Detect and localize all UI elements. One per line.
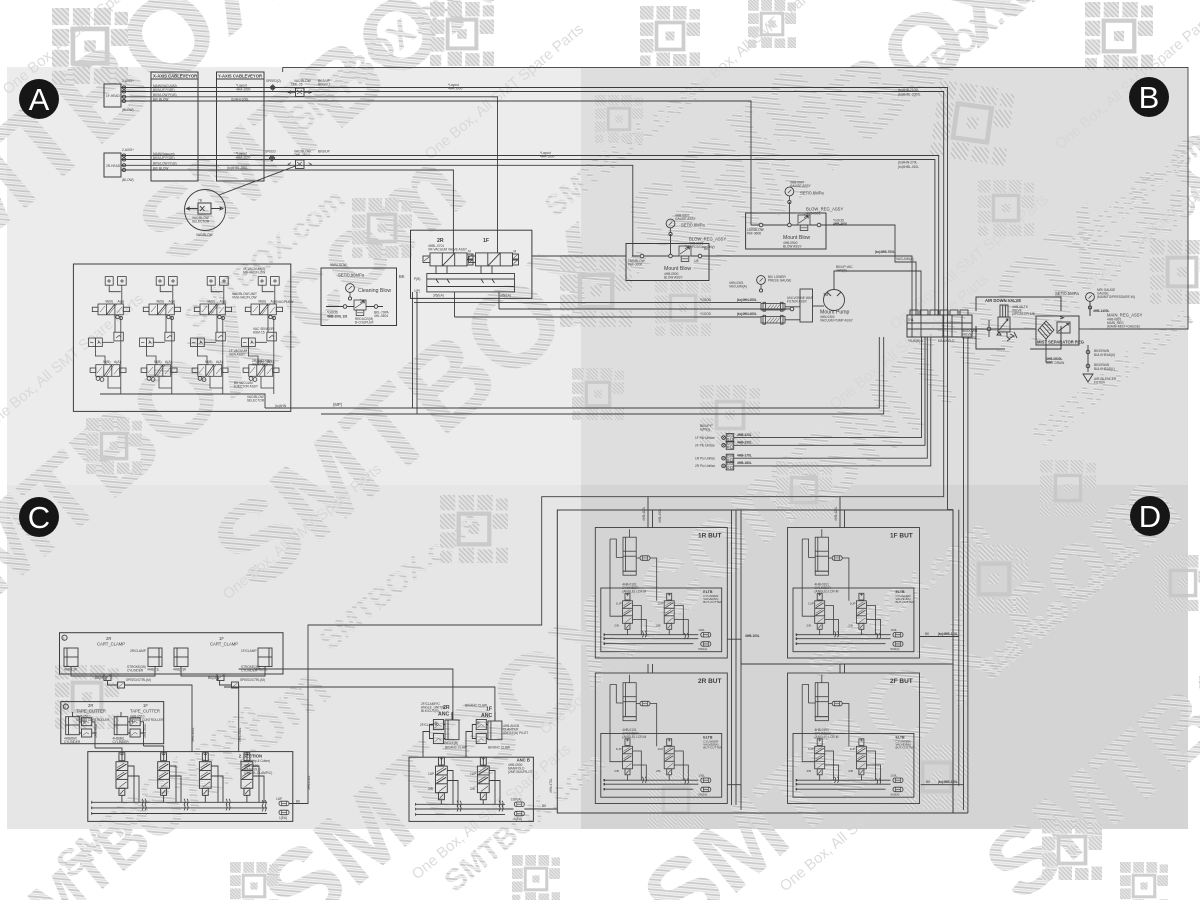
svg-text:TAPE_CUTTER: TAPE_CUTTER [130,709,160,714]
supply line top [283,67,1188,329]
svg-text:SPEED: SPEED [265,150,277,154]
svg-text:4HA-1000: 4HA-1000 [236,156,251,160]
svg-text:OML-25: OML-25 [291,83,303,87]
svg-text:2F Plu Unitize: 2F Plu Unitize [695,444,715,448]
svg-text:BLOW ASSY: BLOW ASSY [783,245,802,249]
valve 1F in big box [469,250,519,266]
svg-text:1R Plu Unitize: 1R Plu Unitize [695,457,715,461]
svg-text:1R BUT: 1R BUT [698,533,722,540]
svg-text:1F: 1F [483,238,489,244]
svg-text:4HB-200L 1/8: 4HB-200L 1/8 [327,315,347,319]
cart clamp tee junctions [71,671,265,752]
gauge in cleaning blow [346,284,355,301]
svg-text:X-AXIS CABLEVEYOR: X-AXIS CABLEVEYOR [153,74,197,79]
filter diamond [1038,321,1054,339]
svg-text:Y-AXIS CABLEVEYOR: Y-AXIS CABLEVEYOR [218,74,262,79]
tiny labels above bundle symbols [265,79,555,159]
svg-text:2/B: 2/B [428,787,433,791]
svg-text:1(EA): 1(EA) [279,816,287,820]
cluster annotation texts col4 [229,267,293,408]
svg-text:3/5(EA): 3/5(EA) [433,294,444,298]
TAPE_CUTTER box [61,702,164,744]
section wires [122,752,264,803]
svg-text:2-AXIS+: 2-AXIS+ [122,79,134,83]
svg-text:MANIFOLD: MANIFOLD [938,339,955,343]
svg-text:CYLINDER: CYLINDER [64,740,81,744]
plug unitize rows [695,337,931,470]
ANC B box [409,757,533,821]
svg-text:4HB-910L: 4HB-910L [143,723,147,738]
regulator in cleaning blow [354,300,366,316]
svg-text:2-AXIS+: 2-AXIS+ [122,148,134,152]
cluster bottom manifold wire [100,394,265,408]
svg-text:2R Plu Unitize: 2R Plu Unitize [695,464,715,468]
svg-text:FILTER: FILTER [1094,381,1105,385]
svg-text:PAF-3000: PAF-3000 [628,263,642,267]
2_SECTION box [88,752,301,822]
svg-text:VACUUM PUMP ASSY: VACUUM PUMP ASSY [820,319,854,323]
svg-text:4HB-420L: 4HB-420L [834,506,838,521]
svg-text:BKS/LOW P(LB): BKS/LOW P(LB) [153,93,177,97]
outer enclosure box [557,510,953,813]
svg-text:A: A [29,82,50,117]
Y-AXIS cableveyor box [217,72,265,181]
vacuum pump [824,290,845,311]
svg-text:1F: 1F [219,636,224,641]
svg-text:SELECTOR: SELECTOR [192,220,210,224]
ANC cylinder 1F [488,712,528,740]
svg-text:2R: 2R [88,703,93,708]
svg-text:7B: 7B [198,199,202,203]
svg-text:VACUUM(A): VACUUM(A) [729,285,747,289]
svg-text:M: M [514,250,517,254]
valve unit A2 [140,277,181,394]
valve unit A1 [89,277,130,394]
clamp cylinder 3 [173,648,188,672]
cableveyor wire labels [122,79,251,182]
svg-text:MIST SEPARATOR REG: MIST SEPARATOR REG [1037,340,1084,345]
svg-text:SPEED(2): SPEED(2) [266,79,281,83]
manifold feed stubs [907,256,921,315]
svg-text:BKS/UP: BKS/UP [318,150,330,154]
svg-text:M: M [468,250,471,254]
wire top bundle line 1 [121,88,953,510]
ANC feed wires up [239,669,453,720]
svg-text:4HA-1000: 4HA-1000 [540,155,555,159]
svg-text:*GOOD: *GOOD [700,312,712,316]
valve unit A4 [242,277,283,394]
ANC manifold lines [416,804,514,814]
svg-text:SET/0.5MPa: SET/0.5MPa [1055,291,1079,296]
wire top bundle line 3 [121,97,498,253]
valve 2R in big box [423,250,473,266]
svg-text:(to)4HN-400L: (to)4HN-400L [737,312,757,316]
svg-text:TAPE_CUTTER: TAPE_CUTTER [76,709,106,714]
svg-text:(to)4HN: (to)4HN [275,404,287,408]
svg-text:SET/0.8MPa: SET/0.8MPa [800,191,824,196]
svg-text:4HB-180L: 4HB-180L [737,461,752,465]
valve unit A3 [191,277,232,394]
2R-HEAD box [104,153,121,177]
svg-text:ANGLE(B): ANGLE(B) [443,741,458,745]
ANC valves 2R [430,720,446,744]
quadrant C background [7,485,581,829]
svg-text:VMU-VAC/FLOW: VMU-VAC/FLOW [232,296,257,300]
muffler capsule 1 [761,302,785,311]
svg-text:1UP: 1UP [276,797,282,801]
svg-text:BK: BK [399,274,405,279]
muffler capsule 2 [761,315,785,324]
svg-text:GAUGE ASSY: GAUGE ASSY [675,217,697,221]
svg-text:4HB(C)L: 4HB(C)L [147,668,160,672]
svg-text:SYL: SYL [908,318,914,322]
(MP) supply lines to right [265,337,879,408]
svg-text:OML-25: OML-25 [294,153,306,157]
pipe mount blow 1 to manifold [532,255,907,257]
section capsules [279,801,289,806]
svg-text:3/5(EA): 3/5(EA) [500,294,511,298]
svg-text:1F BUT: 1F BUT [890,533,913,540]
svg-text:CART_CLAMP: CART_CLAMP [97,642,125,647]
svg-text:4HL-0504: 4HL-0504 [374,314,388,318]
svg-text:(to)4HN-270L: (to)4HN-270L [898,161,918,165]
wire top bundle line 4 [121,101,751,225]
inner vertical bundle lines [732,510,742,805]
svg-text:CART_CLAMP: CART_CLAMP [210,642,238,647]
svg-text:(to)4HN-200L: (to)4HN-200L [737,298,757,302]
cutter cylinder 1 [64,712,81,744]
svg-text:RELEASE: RELEASE [962,336,977,340]
regulator [1057,322,1070,333]
svg-text:4HA-1000: 4HA-1000 [236,88,251,92]
svg-text:(MAIN/TO/PRESSURE IN): (MAIN/TO/PRESSURE IN) [1097,295,1135,299]
svg-text:1UP: 1UP [470,772,476,776]
svg-text:CYLINDER: CYLINDER [127,669,144,673]
main reg gauge [1086,293,1095,310]
speed controller diamond on bundle 1 [270,85,275,90]
svg-text:4HB-1400L: 4HB-1400L [1093,309,1110,313]
svg-text:ASM-15: ASM-15 [253,331,265,335]
plug wires [734,337,922,438]
wire 2nd bundle line 1 [121,156,939,316]
badge B [1129,77,1169,117]
svg-text:2R/CLAMP: 2R/CLAMP [130,649,146,653]
svg-text:SPEED/CTRL(M): SPEED/CTRL(M) [126,678,151,682]
svg-text:ANGLE(A) PILOT: ANGLE(A) PILOT [503,731,528,735]
clamp cylinder 2 [147,648,162,672]
svg-text:SET/0.8MPa: SET/0.8MPa [681,223,705,228]
svg-text:(to)4HB-2100L: (to)4HB-2100L [898,88,919,92]
BUT interconnection wires [727,639,953,664]
svg-text:1F: 1F [486,707,492,713]
svg-text:Cleaning Blow: Cleaning Blow [358,288,391,294]
svg-text:GEN ASSY: GEN ASSY [252,363,269,367]
svg-text:REGULT: REGULT [318,83,331,87]
svg-text:4HB-100L: 4HB-100L [745,634,760,638]
svg-text:BLK/CUT(B): BLK/CUT(B) [421,709,439,713]
svg-text:ANC B: ANC B [517,758,530,763]
svg-text:BK/ANC CLAW: BK/ANC CLAW [488,746,510,750]
inline valve symbol on bundle 1 [288,88,312,97]
pipe to gauge riser [1079,328,1090,330]
svg-text:BK/ANC CLAW: BK/ANC CLAW [445,746,467,750]
svg-text:4HB-170L: 4HB-170L [737,454,752,458]
svg-text:ANC: ANC [481,713,492,719]
BUT box 2F [788,673,920,804]
CART_CLAMP box [60,633,284,674]
svg-text:1UP: 1UP [428,772,434,776]
svg-text:VAC/BLOW: VAC/BLOW [196,233,213,237]
svg-text:EJECTOR ASSY: EJECTOR ASSY [234,385,259,389]
svg-text:4HB-230L: 4HB-230L [737,441,752,445]
svg-text:2: 2 [64,705,66,709]
svg-text:(to)4HBL-050L: (to)4HBL-050L [227,166,248,170]
svg-text:4HN-470L: 4HN-470L [549,778,553,793]
svg-text:(to)4HB-700L: (to)4HB-700L [875,250,895,254]
connector circles at head box 1F [122,86,125,172]
quadrant A background [7,67,581,485]
svg-text:(to)4HB-120L: (to)4HB-120L [938,780,958,784]
svg-text:BLOW ASSY: BLOW ASSY [664,276,683,280]
svg-text:2_SECTION: 2_SECTION [239,754,262,759]
cutter valves 2 [128,718,144,737]
Mount Blow box 2 [746,181,848,250]
wire 2nd bundle line 3 [121,165,633,256]
svg-text:(to)4HBL-010L: (to)4HBL-010L [898,165,919,169]
clamp cylinder 4 [255,648,272,672]
ANC cylinder 2R [443,712,459,745]
svg-text:4HN-010L: 4HN-010L [307,775,311,790]
svg-text:P(B): P(B) [414,277,420,281]
svg-text:(MP): (MP) [333,402,343,407]
svg-text:(2MF-2L-CLAMP/C): (2MF-2L-CLAMP/C) [244,771,272,775]
svg-text:2/B: 2/B [470,787,475,791]
svg-text:4HB-410L: 4HB-410L [642,506,646,521]
air down valve symbol [1000,305,1008,317]
clamp cylinder 1 [64,648,78,672]
svg-text:VAC/FLOW: VAC/FLOW [277,300,293,304]
svg-text:2R: 2R [106,636,111,641]
cutter valves 1 [79,718,95,737]
badge D [1130,496,1170,536]
svg-text:4HB(C)R: 4HB(C)R [173,668,187,672]
svg-text:FILTER ASSY: FILTER ASSY [787,300,808,304]
svg-text:(to)4HB-110L: (to)4HB-110L [938,632,958,636]
svg-text:4HA-1000: 4HA-1000 [448,87,463,91]
svg-text:PRESS GAUGE: PRESS GAUGE [768,279,791,283]
svg-text:SPEED/CTRL(M): SPEED/CTRL(M) [240,678,265,682]
main pipe through [972,328,1036,330]
ANC box wires [441,757,500,804]
badge A [19,79,59,119]
manifold base inside big box [427,274,515,292]
svg-text:1F-HEAD: 1F-HEAD [106,94,120,98]
cutter cylinder 2 [113,712,130,744]
lines from A to vacuum pump area [414,301,761,303]
wire 2nd bundle line 2 [121,160,935,316]
svg-text:1(EA): 1(EA) [514,817,522,821]
wire 2nd bundle line 4 [121,170,453,253]
svg-text:BULKHEAD(L): BULKHEAD(L) [1094,367,1115,371]
speed controller diamond on bundle 2 [269,155,274,160]
BUT box 2R [595,673,727,804]
vacuum pump assembly [700,257,914,324]
svg-text:PAF-3000: PAF-3000 [747,232,761,236]
1F-HEAD box [104,84,121,107]
svg-text:4HB-220L: 4HB-220L [737,433,752,437]
Mount Blow box 1 [626,214,726,281]
svg-text:ANC: ANC [438,712,449,718]
svg-text:4HB-900L: 4HB-900L [94,723,98,738]
svg-text:4HB-430L: 4HB-430L [658,508,662,523]
inline valve symbol on bundle 2 [288,160,312,169]
svg-text:(4PCS/LCR-1/8): (4PCS/LCR-1/8) [1012,312,1035,316]
ANC valves 1F [472,720,488,744]
svg-text:BULKHEAD(6): BULKHEAD(6) [1094,353,1115,357]
svg-text:CYLINDER: CYLINDER [113,740,130,744]
svg-text:BK/ANC CLAW: BK/ANC CLAW [465,704,487,708]
section manifold lines [92,802,267,813]
ANC box valves [436,757,448,799]
detail circle callout [185,166,296,237]
quadrant B background [581,67,1188,485]
svg-text:B: B [1139,80,1160,115]
svg-text:4HB(C)R: 4HB(C)R [64,668,78,672]
svg-text:(2MF-BLK/PILOT: (2MF-BLK/PILOT [508,770,533,774]
svg-text:7B: 7B [823,292,828,297]
svg-text:AIR DOWN VALVE: AIR DOWN VALVE [985,298,1021,303]
svg-text:1F/CLAMP: 1F/CLAMP [241,649,257,653]
section valves [116,753,253,795]
wires below big valve box [412,292,414,408]
svg-text:VR-VACUUM VALVE ASSY: VR-VACUUM VALVE ASSY [428,248,468,252]
pipe from mount blow 2 to manifold [826,225,907,262]
svg-text:1F Plu Unitize: 1F Plu Unitize [695,436,715,440]
svg-text:(BLOW): (BLOW) [122,108,134,112]
svg-text:2F/CLAMP/C: 2F/CLAMP/C [420,723,439,727]
badge C [19,497,59,537]
BUT box 1F [788,528,920,659]
svg-text:(to)4HBL-2000L: (to)4HBL-2000L [898,93,921,97]
svg-text:2R-HEAD: 2R-HEAD [106,164,121,168]
BUT feed stubs from top runs [648,497,845,528]
svg-text:BK(M): BK(M) [95,676,104,680]
svg-text:2F BUT: 2F BUT [890,678,913,685]
ANC capsules [514,802,524,807]
labels at right bundle turns [898,88,921,169]
svg-text:VM/U DOW: VM/U DOW [330,263,347,267]
svg-text:In/Plug: In/Plug [700,428,710,432]
svg-text:4HN-300L: 4HN-300L [191,727,195,742]
svg-text:VACUUM(A): VACUUM(A) [896,257,914,261]
svg-text:D: D [1139,499,1161,534]
svg-text:GAUGE ASSY: GAUGE ASSY [790,184,812,188]
svg-text:(4PCS/GaseOnly): (4PCS/GaseOnly) [689,245,715,249]
svg-text:GEN ASSY: GEN ASSY [229,353,246,357]
ANC feed from right [524,808,557,810]
svg-text:B-COUPLER: B-COUPLER [355,321,374,325]
svg-text:1UP(A): 1UP(A) [511,798,521,802]
manifold column [800,289,813,322]
svg-text:*GOOD: *GOOD [700,298,712,302]
svg-text:MB-VAC/FLOW: MB-VAC/FLOW [243,271,265,275]
svg-text:C: C [28,500,50,535]
wires cutter to section box [94,723,242,751]
svg-text:(BLOW): (BLOW) [122,178,134,182]
wire top bundle line 2 [121,92,944,804]
drain below mist separator [1087,345,1089,372]
svg-text:(MAIN+MIST+GAUGE): (MAIN+MIST+GAUGE) [1107,325,1140,329]
svg-text:SELECTOR: SELECTOR [247,399,265,403]
svg-text:BK(M): BK(M) [208,676,217,680]
svg-text:1/8: 1/8 [694,259,699,263]
X-AXIS cableveyor box [151,72,198,181]
svg-text:4HN(B): 4HN(B) [836,269,847,273]
svg-text:2R BUT: 2R BUT [698,678,722,685]
svg-text:1F: 1F [143,703,148,708]
svg-text:4HN-310L: 4HN-310L [238,727,242,742]
BUT box 1R [595,528,727,659]
svg-text:1: 1 [63,636,65,640]
svg-text:SET/0.90MPa: SET/0.90MPa [338,273,365,278]
svg-text:MIST DRAIN: MIST DRAIN [1046,361,1065,365]
cluster outer box [73,264,290,411]
quadrant D background [581,485,1188,829]
